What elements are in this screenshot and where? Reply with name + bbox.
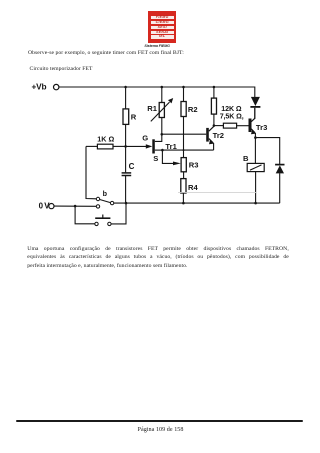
- diode D2 flyback: [255, 138, 284, 204]
- relay coil B: [243, 138, 264, 204]
- capacitor C: [122, 162, 135, 175]
- transistor Tr3: [249, 108, 268, 138]
- node rail-12K: [213, 86, 216, 89]
- resistor R2: [181, 102, 198, 117]
- node Tr3 emitter junction: [254, 136, 257, 139]
- node Tr1 source junction: [161, 149, 164, 152]
- node rail-relay: [254, 202, 257, 205]
- transistor Tr1 (FET): [146, 134, 178, 153]
- svg-text:R1: R1: [147, 104, 157, 113]
- resistor 1K: [86, 135, 126, 149]
- wire 0V line: [54, 205, 96, 207]
- svg-text:b: b: [103, 189, 108, 198]
- wire wiper to R3: [162, 150, 180, 165]
- wire top rail: [59, 87, 255, 97]
- node rail-R4: [182, 202, 185, 205]
- wire R3-R4: [183, 172, 185, 179]
- svg-text:Tr3: Tr3: [256, 123, 267, 132]
- node S-line/R2R3 crossing: [183, 149, 185, 151]
- svg-text:G: G: [142, 134, 148, 143]
- logo stripes + red text: [151, 16, 174, 39]
- svg-text:R: R: [131, 113, 137, 122]
- terminal 0V label: [39, 201, 51, 210]
- intro line 2: [30, 66, 93, 72]
- resistor 12K: [211, 98, 216, 114]
- svg-text:+Vb: +Vb: [32, 81, 47, 91]
- resistor R1 (variable): [147, 98, 173, 121]
- node rail-Cline: [125, 202, 128, 205]
- footer rule: [16, 420, 303, 422]
- wire gate line: [126, 145, 147, 147]
- terminal 0V circle: [49, 204, 54, 209]
- switch b: [86, 146, 114, 204]
- wire bottom rail: [114, 202, 280, 204]
- svg-text:1K Ω: 1K Ω: [97, 135, 114, 144]
- label S: [153, 154, 158, 163]
- node gate junction: [124, 145, 127, 148]
- scan artifact faint line: [178, 191, 256, 193]
- logo caption Sistema FIEMG: [144, 45, 184, 49]
- svg-text:B: B: [243, 154, 249, 163]
- svg-text:Tr1: Tr1: [165, 142, 177, 151]
- wire 12K vertical: [213, 87, 215, 126]
- wire R/C vertical: [125, 87, 127, 203]
- node Tr1 drain junction: [161, 133, 164, 136]
- resistor R3 (pot): [181, 158, 198, 172]
- node 12K/Tr2/7.5K junction: [213, 124, 216, 127]
- wire R2/R3 vertical: [183, 87, 185, 158]
- wire R4 to rail: [182, 193, 184, 203]
- svg-text:S: S: [153, 154, 158, 163]
- resistor R4: [181, 179, 199, 193]
- wire Tr2 base: [162, 133, 206, 135]
- node rail-R2: [182, 86, 185, 89]
- svg-text:C: C: [129, 162, 135, 171]
- transistor Tr2: [206, 126, 224, 150]
- terminal +Vb circle: [54, 84, 59, 89]
- wire R1 vertical: [161, 87, 163, 134]
- node rail-R: [124, 86, 127, 89]
- paragraph below circuit: [27, 246, 289, 252]
- push-button T: [75, 203, 126, 225]
- switch b open contact: [96, 205, 99, 208]
- resistor 7.5K: [214, 123, 249, 128]
- node rail-R1: [161, 86, 164, 89]
- resistor R: [123, 109, 137, 125]
- label 7,5K ohm: [220, 112, 244, 120]
- svg-text:R2: R2: [188, 105, 198, 114]
- terminal +Vb label: [32, 81, 47, 91]
- diode D1: [250, 97, 260, 119]
- FIEMG logo red square: [148, 11, 176, 44]
- svg-text:R3: R3: [189, 160, 199, 169]
- svg-text:R4: R4: [188, 183, 198, 192]
- svg-text:7,5K Ω,: 7,5K Ω,: [220, 112, 244, 120]
- label 12K ohm: [221, 105, 242, 113]
- footer page number: [0, 427, 320, 433]
- node 0V junction: [74, 205, 77, 208]
- wire source to Tr2 emitter: [162, 149, 213, 151]
- intro line 1: [28, 50, 184, 56]
- svg-text:Tr2: Tr2: [213, 131, 224, 140]
- label G: [142, 134, 148, 143]
